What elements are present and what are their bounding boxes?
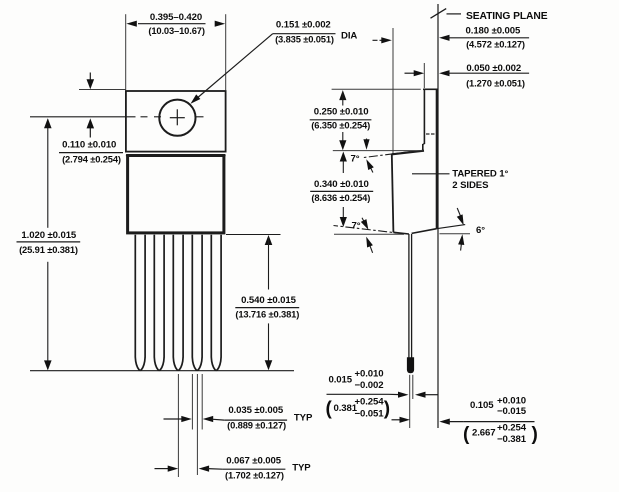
1.020 dim up arrow — [44, 118, 52, 128]
seating plane leader — [447, 13, 462, 15]
6deg lower arrow — [461, 242, 462, 251]
0.035 dim right arrow — [203, 416, 214, 422]
width dim extension line left — [125, 14, 127, 90]
7deg lower indicator arrow — [370, 166, 373, 173]
side lead tip — [407, 357, 414, 373]
hole dia leader arrow — [191, 94, 201, 103]
0.015 left-point arrow — [415, 392, 426, 398]
svg-text:(10.03–10.67): (10.03–10.67) — [148, 25, 204, 36]
1.020 dim line upper — [47, 120, 49, 228]
svg-text:0.395–0.420: 0.395–0.420 — [150, 12, 202, 23]
tab front-face extension line — [423, 63, 425, 88]
lead 1 — [135, 235, 145, 370]
svg-text:+0.254: +0.254 — [497, 423, 527, 434]
7deg upper indicator arrow — [366, 139, 368, 143]
0.035 dim bar — [224, 419, 287, 421]
side body bottom left edge — [393, 232, 409, 234]
svg-text:(: ( — [463, 424, 470, 445]
svg-text:(4.572 ±0.127): (4.572 ±0.127) — [466, 39, 525, 50]
0.050 dim right-point arrow — [405, 72, 416, 74]
svg-text:): ) — [532, 424, 538, 445]
0.050 dim bar — [447, 72, 529, 74]
0.180 dim left-point arrow — [439, 35, 450, 41]
lead4 right edge extension line — [201, 374, 203, 430]
0.250 dim up arrow — [339, 90, 346, 100]
svg-text:−0.051: −0.051 — [355, 408, 385, 419]
lead3 center extension line — [177, 374, 179, 477]
0.540 dim bar — [235, 307, 299, 309]
svg-text:0.105: 0.105 — [470, 400, 494, 411]
svg-text:(13.716 ±0.381): (13.716 ±0.381) — [235, 309, 299, 320]
svg-text:+0.010: +0.010 — [355, 368, 384, 379]
width dim bar — [138, 23, 206, 25]
svg-text:(: ( — [326, 399, 333, 420]
7deg bottom upper arrow — [362, 218, 365, 223]
6deg upper arrow — [457, 208, 460, 216]
0.250 dim down arrow — [342, 132, 344, 141]
side tab inner dash 2 — [431, 133, 435, 135]
lead4 left edge extension line — [191, 374, 193, 430]
width dim arrow right — [215, 21, 226, 27]
svg-text:0.110 ±0.010: 0.110 ±0.010 — [62, 139, 116, 150]
lead tips baseline — [30, 370, 294, 372]
svg-text:6°: 6° — [476, 225, 485, 236]
0.110 dim up arrow — [89, 127, 91, 138]
svg-text:TAPERED 1°: TAPERED 1° — [452, 169, 508, 180]
0.015 bar — [327, 393, 389, 395]
seating plane slash — [431, 9, 447, 19]
mounting hole — [159, 100, 195, 136]
0.110 dim bar — [59, 152, 123, 154]
lead left face extension — [409, 375, 411, 428]
TAPERED leader line — [412, 173, 450, 175]
svg-text:0.151 ±0.002: 0.151 ±0.002 — [276, 19, 331, 30]
1.020 dim bar — [17, 241, 81, 243]
svg-text:0.050 ±0.002: 0.050 ±0.002 — [466, 63, 521, 74]
0.067 dim right arrow — [199, 466, 210, 472]
hole center cross vertical — [176, 109, 178, 125]
centerline dash 2 — [154, 116, 161, 118]
svg-text:(0.889 ±0.127): (0.889 ±0.127) — [227, 420, 286, 431]
svg-text:1.020 ±0.015: 1.020 ±0.015 — [21, 230, 77, 241]
width dim arrow left — [126, 21, 137, 27]
0.540 dim line lower — [268, 323, 270, 369]
svg-text:7°: 7° — [351, 153, 360, 164]
side step extension line — [333, 150, 423, 152]
0.340 dim bar — [310, 190, 373, 192]
svg-text:0.340 ±0.010: 0.340 ±0.010 — [314, 179, 369, 190]
svg-text:2 SIDES: 2 SIDES — [452, 180, 489, 191]
side tab front face lower jog — [422, 144, 424, 151]
side step ledge — [392, 151, 424, 155]
svg-text:): ) — [384, 399, 390, 420]
body bottom right extension line — [226, 234, 281, 236]
svg-text:0.540 ±0.015: 0.540 ±0.015 — [241, 295, 297, 306]
side lead left face — [408, 234, 410, 358]
side body back face — [436, 89, 438, 228]
0.050 dim left-point arrow — [439, 70, 450, 76]
svg-text:(6.350 ±0.254): (6.350 ±0.254) — [311, 119, 370, 130]
svg-text:7°: 7° — [352, 220, 361, 231]
svg-text:(25.91 ±0.381): (25.91 ±0.381) — [19, 244, 78, 255]
0.340 dim down arrow — [342, 207, 344, 218]
svg-text:TYP: TYP — [292, 463, 311, 474]
svg-text:(3.835 ±0.051): (3.835 ±0.051) — [275, 34, 334, 45]
7deg slant top — [362, 152, 410, 158]
0.105 left-point arrow — [439, 419, 450, 425]
svg-text:0.180 ±0.005: 0.180 ±0.005 — [466, 26, 522, 37]
0.035 dim left arrow — [164, 418, 184, 420]
0.250 dim bar — [310, 119, 372, 121]
7deg bottom lower arrow — [370, 245, 373, 253]
0.180 dim bar — [447, 37, 529, 39]
0.067 dim left arrow — [155, 468, 170, 470]
side tab inner dash 1 — [426, 133, 430, 135]
side tab top edge — [423, 88, 438, 90]
0.110 dim down arrow — [89, 73, 91, 82]
bottom-left horizontal extension — [334, 233, 404, 235]
side tab top extension line — [332, 88, 421, 90]
0.540 dim up arrow — [265, 235, 273, 245]
side body front face — [392, 154, 394, 232]
0.540 dim down arrow — [265, 360, 273, 370]
hole dia dim bar — [273, 33, 336, 35]
lead 5 — [211, 235, 221, 370]
svg-text:(2.794 ±0.254): (2.794 ±0.254) — [62, 154, 121, 165]
svg-text:−0.381: −0.381 — [497, 434, 527, 445]
0.180 dim right-point arrow — [373, 39, 384, 41]
7deg slant bottom — [334, 226, 404, 234]
6deg horizontal extension — [440, 233, 471, 235]
hole centerline left segment — [30, 116, 136, 118]
svg-text:DIA: DIA — [341, 31, 357, 42]
centerline dash 1 — [141, 116, 148, 118]
lead 2 — [154, 235, 164, 370]
svg-text:2.667: 2.667 — [472, 427, 496, 438]
front view molded body outline — [128, 156, 224, 233]
0.540 dim line upper — [268, 237, 270, 290]
svg-text:−0.015: −0.015 — [497, 406, 527, 417]
svg-text:(1.270 ±0.051): (1.270 ±0.051) — [466, 78, 525, 89]
svg-text:−0.002: −0.002 — [355, 380, 384, 391]
svg-text:SEATING PLANE: SEATING PLANE — [466, 11, 548, 22]
hole dia leader line — [193, 34, 273, 102]
0.105 right-point arrow — [392, 419, 403, 421]
side body bottom right edge — [412, 229, 437, 234]
svg-text:0.015: 0.015 — [329, 375, 353, 386]
lead 3 — [173, 235, 183, 370]
front view tab outline — [126, 91, 226, 152]
svg-text:+0.010: +0.010 — [497, 395, 526, 406]
centerline dash right of hole — [196, 116, 204, 118]
svg-text:TYP: TYP — [294, 413, 313, 424]
lead4 center extension line — [196, 374, 198, 475]
width dim extension line right — [225, 14, 227, 90]
1.020 dim line lower — [47, 262, 49, 369]
svg-text:(1.702 ±0.127): (1.702 ±0.127) — [225, 470, 284, 481]
svg-text:+0.254: +0.254 — [355, 397, 385, 408]
side front-face extension line — [392, 28, 394, 154]
front view body separator line — [126, 155, 226, 157]
hole center cross horizontal — [170, 117, 185, 119]
0.105 bar — [464, 421, 535, 423]
seating plane line — [437, 4, 439, 428]
svg-text:(8.636 ±0.254): (8.636 ±0.254) — [311, 192, 370, 203]
svg-text:0.250 ±0.010: 0.250 ±0.010 — [314, 107, 369, 118]
svg-text:0.067 ±0.005: 0.067 ±0.005 — [226, 455, 282, 466]
lead 4 — [192, 235, 202, 370]
side tab front face — [423, 89, 425, 144]
side lead right face — [411, 234, 413, 358]
0.015 right-point arrow — [389, 393, 401, 395]
tab top extension line left — [79, 89, 126, 91]
0.067 dim bar — [223, 468, 286, 470]
lead right face extension — [412, 375, 414, 399]
0.340 dim up arrow — [340, 152, 347, 162]
6deg slant extension — [437, 225, 466, 229]
1.020 dim down arrow — [44, 360, 52, 370]
svg-text:0.035 ±0.005: 0.035 ±0.005 — [228, 405, 284, 416]
